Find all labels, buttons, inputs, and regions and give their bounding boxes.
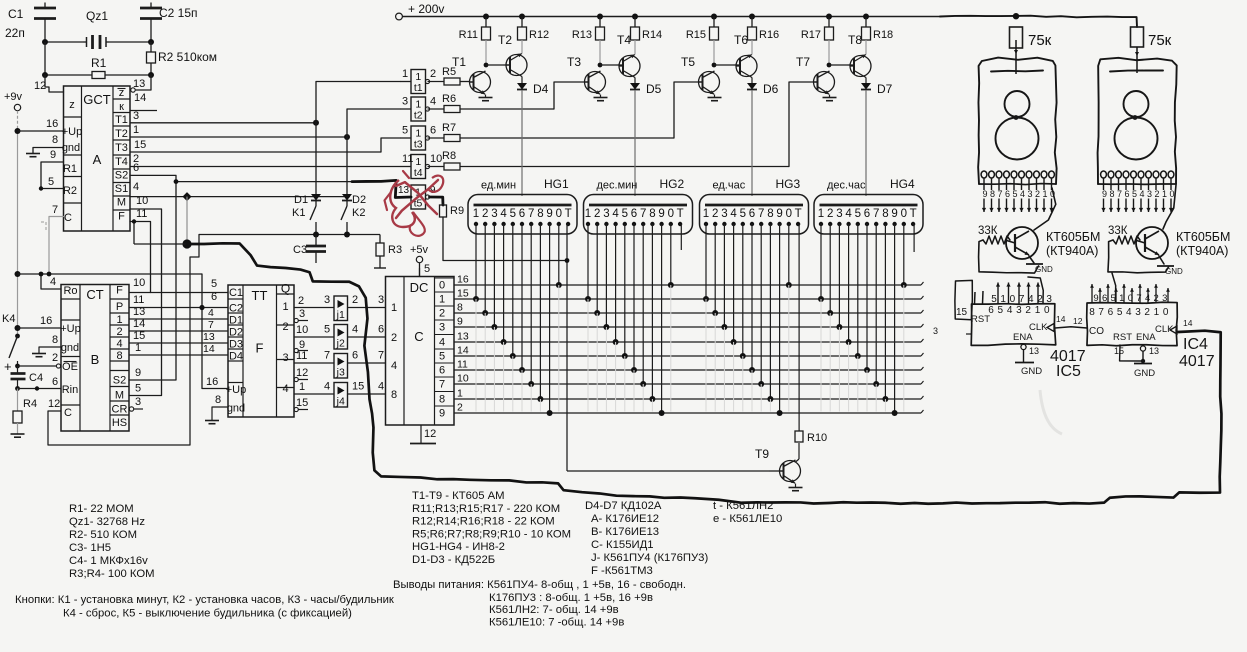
svg-text:0: 0: [1128, 293, 1133, 304]
svg-text:10: 10: [430, 153, 442, 165]
svg-text:HG2: HG2: [660, 177, 685, 191]
IC B pin numbers: [40, 276, 145, 408]
svg-text:14: 14: [134, 92, 146, 104]
svg-text:D2: D2: [352, 194, 366, 206]
ground T3: [594, 95, 608, 101]
svg-text:2: 2: [52, 352, 58, 364]
wire R7 to T5 base: [674, 82, 698, 138]
svg-text:0: 0: [556, 208, 562, 220]
svg-text:13: 13: [203, 331, 215, 343]
ground T5: [708, 95, 722, 101]
svg-text:9: 9: [776, 208, 782, 220]
node +9v line1: [15, 271, 21, 277]
svg-text:R3: R3: [388, 244, 402, 256]
svg-text:0: 0: [1044, 305, 1050, 316]
svg-text:A- К176ИЕ12: A- К176ИЕ12: [591, 513, 659, 525]
svg-text:4: 4: [612, 208, 619, 220]
svg-text:1: 1: [457, 388, 463, 400]
svg-text:3: 3: [836, 208, 842, 220]
wire A pin6 S2: [129, 175, 176, 380]
svg-text:15: 15: [133, 330, 145, 342]
IC F inverted output stubs: [294, 318, 308, 411]
diode D6: [747, 82, 779, 96]
svg-text:4: 4: [50, 276, 56, 288]
svg-text:8: 8: [649, 208, 655, 220]
notes middle column: [412, 490, 571, 566]
svg-text:t1: t1: [414, 82, 423, 94]
svg-text:DC: DC: [410, 280, 429, 295]
notes buttons: [15, 594, 394, 620]
svg-text:6: 6: [378, 324, 384, 336]
svg-text:1: 1: [818, 208, 824, 220]
svg-text:GCT: GCT: [83, 92, 111, 107]
svg-text:F -К561ТМ3: F -К561ТМ3: [591, 565, 653, 577]
svg-text:4: 4: [116, 338, 122, 350]
svg-text:D6: D6: [763, 82, 779, 96]
label ед.мин HG1: [481, 177, 569, 192]
svg-text:R14: R14: [642, 29, 662, 41]
svg-text:5: 5: [1012, 189, 1017, 199]
svg-text:S2: S2: [113, 375, 126, 387]
svg-text:7: 7: [997, 189, 1002, 199]
svg-text:7: 7: [1098, 307, 1104, 318]
resistor R15: [686, 17, 719, 42]
svg-text:1: 1: [1000, 294, 1006, 305]
svg-text:2: 2: [827, 208, 833, 220]
svg-text:2: 2: [282, 321, 288, 333]
svg-text:1: 1: [1154, 307, 1160, 318]
svg-text:9: 9: [439, 408, 445, 420]
wire B Rin pin6: [18, 386, 62, 390]
svg-text:T7: T7: [796, 55, 810, 69]
svg-text:6: 6: [52, 376, 58, 388]
svg-text:GND: GND: [1021, 366, 1042, 377]
svg-text:10: 10: [296, 324, 308, 336]
inverter t5: [398, 185, 436, 210]
svg-text:HG1-HG4 - ИН8-2: HG1-HG4 - ИН8-2: [412, 541, 505, 553]
svg-text:к: к: [119, 101, 124, 113]
resistor R7: [442, 122, 674, 142]
svg-text:5: 5: [324, 324, 330, 336]
svg-text:M: M: [115, 390, 124, 402]
node OE tap: [15, 364, 20, 369]
svg-text:5: 5: [998, 305, 1004, 316]
svg-text:R18: R18: [873, 29, 893, 41]
switch K2: [341, 206, 365, 235]
svg-text:9: 9: [135, 367, 141, 379]
svg-text:7: 7: [52, 204, 58, 216]
svg-text:8: 8: [1109, 189, 1114, 199]
svg-text:10: 10: [457, 373, 469, 385]
buffer j2: [294, 324, 385, 350]
transistor T8: [848, 33, 872, 78]
transistor Q left KT605BM: [1005, 188, 1100, 259]
svg-text:5: 5: [402, 125, 408, 137]
notes logic column: [713, 500, 782, 525]
wire A pin7: [49, 217, 64, 275]
inverter t2: [400, 96, 444, 122]
svg-text:Т1-Т9 - КТ605 АМ: Т1-Т9 - КТ605 АМ: [412, 490, 505, 502]
svg-text:j2: j2: [336, 338, 345, 350]
switch K4: [2, 313, 20, 366]
wire R18-D7 column: [865, 40, 867, 83]
transistor T5: [681, 55, 720, 94]
wire T3 net pin15: [130, 151, 381, 153]
+9v terminal: [4, 91, 23, 127]
op-amp U IC4 4017: [1087, 273, 1193, 379]
svg-text:C4: C4: [29, 372, 43, 384]
svg-text:IC5: IC5: [1056, 363, 1081, 380]
resistor 33K left: [978, 225, 1039, 273]
node +9v A: [15, 128, 21, 134]
resistor R4: [13, 389, 37, 435]
wire HG3 T to R10: [798, 224, 800, 431]
svg-text:3: 3: [282, 352, 288, 364]
svg-text:5: 5: [439, 351, 445, 363]
svg-text:K2: K2: [352, 207, 365, 219]
svg-text:(КТ940А): (КТ940А): [1176, 244, 1228, 258]
svg-text:4: 4: [1020, 189, 1025, 199]
svg-text:6: 6: [133, 162, 139, 174]
wire T4 net pin2: [130, 166, 400, 168]
wire R6 to T3 base: [554, 82, 584, 109]
svg-text:9: 9: [546, 208, 552, 220]
svg-text:22п: 22п: [5, 26, 25, 40]
svg-text:16: 16: [40, 315, 52, 327]
svg-text:C2 15п: C2 15п: [159, 6, 198, 20]
svg-text:+Up: +Up: [60, 323, 81, 335]
svg-text:R1- 22 МОМ: R1- 22 МОМ: [69, 503, 134, 515]
svg-text:К561ЛН2: 7- общ. 14 +9в: К561ЛН2: 7- общ. 14 +9в: [489, 604, 619, 616]
svg-text:3: 3: [324, 294, 330, 306]
resistor R3: [374, 235, 402, 269]
svg-text:R4: R4: [23, 398, 37, 410]
svg-text:7: 7: [528, 208, 534, 220]
svg-text:Выводы питания: К561ПУ4- 8-общ: Выводы питания: К561ПУ4- 8-общ , 1 +5в, …: [393, 579, 686, 591]
svg-text:К4 - сброс, К5 - выключение бу: К4 - сброс, К5 - выключение будильника (…: [63, 608, 352, 620]
wire A gnd pin8: [33, 148, 64, 154]
resistor R13: [572, 17, 605, 42]
svg-text:T1: T1: [452, 55, 466, 69]
svg-text:2: 2: [430, 68, 436, 80]
svg-text:C3: C3: [293, 244, 307, 256]
svg-text:9: 9: [982, 189, 987, 199]
svg-text:2: 2: [439, 308, 445, 320]
IC A pin numbers: [34, 78, 148, 220]
node Rin tap: [15, 386, 20, 391]
notes right column: [585, 500, 708, 577]
svg-text:4: 4: [439, 337, 445, 349]
node C3: [313, 232, 319, 238]
svg-text:1: 1: [585, 208, 591, 220]
wire HG2 T stub: [680, 224, 682, 250]
svg-text:1: 1: [116, 314, 122, 326]
svg-text:14: 14: [203, 343, 215, 355]
svg-text:5: 5: [48, 176, 54, 188]
IC F pin numbers right: [296, 295, 308, 409]
svg-text:14: 14: [133, 318, 145, 330]
wire B CR pin3: [129, 407, 143, 411]
svg-text:6: 6: [352, 350, 358, 362]
svg-text:GND: GND: [1134, 368, 1155, 379]
svg-text:C1: C1: [229, 287, 243, 299]
svg-text:R16: R16: [759, 29, 779, 41]
svg-text:16: 16: [457, 274, 469, 286]
svg-text:D4: D4: [533, 82, 549, 96]
svg-text:2: 2: [116, 326, 122, 338]
svg-text:T8: T8: [848, 33, 862, 47]
ground F: [205, 421, 219, 424]
svg-text:8: 8: [215, 394, 221, 406]
node rail 75k: [1013, 13, 1019, 19]
svg-text:e - К561ЛЕ10: e - К561ЛЕ10: [713, 513, 782, 525]
svg-text:15: 15: [956, 307, 968, 318]
svg-text:15: 15: [457, 288, 469, 300]
svg-text:6: 6: [1005, 189, 1010, 199]
svg-text:8: 8: [457, 302, 463, 314]
resistor 75k right: [1131, 27, 1172, 49]
faint mark: [1040, 390, 1062, 434]
node R1 left: [42, 72, 48, 78]
wire R10 to T9 collector: [796, 443, 800, 462]
svg-text:3: 3: [721, 208, 727, 220]
wire pin13 to R2 node: [131, 75, 151, 92]
svg-text:3: 3: [1135, 307, 1141, 318]
node T1-D1: [313, 120, 319, 126]
svg-text:8: 8: [439, 394, 445, 406]
resistor R8: [442, 150, 789, 170]
svg-text:gnd: gnd: [62, 142, 80, 154]
svg-text:0: 0: [1010, 294, 1016, 305]
wire Qz1 right: [109, 41, 151, 43]
svg-text:7: 7: [378, 350, 384, 362]
svg-text:P: P: [116, 301, 123, 313]
svg-text:C: C: [414, 329, 423, 344]
op-amp U A counter K176IE12: [62, 86, 130, 231]
svg-text:4: 4: [1007, 305, 1013, 316]
svg-text:12: 12: [34, 80, 46, 92]
svg-text:8: 8: [537, 208, 543, 220]
svg-text:4: 4: [1028, 294, 1034, 305]
wire R15 to T5 collector: [712, 40, 734, 67]
svg-text:6: 6: [1102, 293, 1107, 304]
svg-text:2: 2: [352, 294, 358, 306]
svg-text:C1: C1: [8, 7, 24, 21]
svg-text:R8: R8: [442, 150, 456, 162]
diode D2: [342, 137, 366, 206]
wire B Ro pin4: [41, 274, 61, 289]
svg-text:С3- 1Н5: С3- 1Н5: [69, 542, 111, 554]
svg-text:5: 5: [855, 208, 861, 220]
wire 75k right to tube: [1135, 47, 1139, 74]
svg-text:C: C: [64, 407, 72, 419]
svg-text:z: z: [69, 99, 75, 111]
svg-text:4: 4: [430, 96, 436, 108]
svg-text:7: 7: [640, 208, 646, 220]
wire T2 up to t2: [347, 109, 400, 137]
svg-text:1: 1: [703, 208, 709, 220]
svg-text:D5: D5: [646, 82, 662, 96]
svg-text:5: 5: [740, 208, 746, 220]
svg-text:C- К155ИД1: C- К155ИД1: [591, 539, 654, 551]
wire HG4 T stub: [913, 224, 915, 252]
svg-text:R12: R12: [529, 29, 549, 41]
svg-text:ед.час: ед.час: [713, 180, 746, 192]
wire matrix rows DC outputs: [454, 282, 924, 413]
svg-text:1: 1: [299, 381, 305, 393]
svg-text:3: 3: [603, 208, 609, 220]
wire D6 to HG3 anode: [751, 90, 753, 196]
svg-text:5: 5: [424, 263, 430, 275]
wire R11 to T1 collector: [484, 40, 504, 67]
buffer j4: [294, 381, 385, 408]
svg-text:4: 4: [133, 181, 139, 193]
svg-text:Qz1- 32768 Hz: Qz1- 32768 Hz: [69, 516, 145, 528]
svg-text:HS: HS: [112, 417, 127, 429]
svg-text:R7: R7: [442, 122, 456, 134]
svg-text:0: 0: [786, 208, 792, 220]
ground B: [32, 354, 46, 357]
node D2 bus: [344, 232, 350, 238]
svg-text:3: 3: [933, 326, 938, 336]
svg-text:1: 1: [402, 68, 408, 80]
resistor R11: [459, 17, 491, 42]
wire Q left emitter gnd: [1026, 256, 1053, 274]
svg-text:дес.мин: дес.мин: [597, 180, 638, 192]
svg-text:13: 13: [457, 331, 469, 343]
svg-text:3: 3: [491, 208, 497, 220]
svg-text:КТ605БМ: КТ605БМ: [1046, 230, 1100, 244]
resistor R18: [862, 17, 894, 42]
svg-text:12: 12: [296, 367, 308, 379]
svg-text:3: 3: [1016, 305, 1022, 316]
wire display cathode drops with junctions: [473, 224, 907, 416]
svg-text:3: 3: [1046, 294, 1052, 305]
ghost erased verticals: [476, 285, 904, 412]
DC output pin numbers: [457, 274, 469, 414]
wire T9 emitter: [795, 484, 797, 488]
svg-text:11: 11: [402, 153, 413, 165]
svg-text:D4-D7 КД102А: D4-D7 КД102А: [585, 500, 662, 512]
svg-text:Q: Q: [281, 282, 290, 296]
wire R9 down: [443, 217, 567, 261]
svg-text:B- К176ИЕ13: B- К176ИЕ13: [591, 526, 659, 538]
svg-text:75к: 75к: [1148, 32, 1172, 49]
resistor R12: [518, 17, 550, 42]
op-amp U B counter K176IE13: [60, 285, 129, 432]
wire Qz1 left: [45, 41, 83, 43]
svg-text:4: 4: [324, 381, 330, 393]
svg-text:R6: R6: [442, 93, 456, 105]
svg-text:13: 13: [1149, 346, 1159, 356]
svg-text:4: 4: [378, 381, 384, 393]
svg-text:+Up: +Up: [226, 384, 247, 396]
node B +Up: [15, 325, 21, 331]
wire D4 to HG1 anode: [521, 90, 523, 196]
wire A pin9: [41, 162, 64, 189]
svg-text:R17: R17: [801, 29, 821, 41]
svg-text:T2: T2: [498, 33, 512, 47]
svg-text:+ 200v: + 200v: [408, 2, 444, 16]
wire D5 to HG2 anode: [634, 90, 636, 196]
diode D4: [517, 82, 549, 96]
svg-text:T: T: [910, 208, 917, 220]
wire cross tie: [134, 243, 187, 245]
svg-text:С4- 1 МКФх16v: С4- 1 МКФх16v: [69, 555, 148, 567]
wire pin12 to R1 node: [45, 75, 64, 92]
svg-text:CO: CO: [1089, 326, 1104, 337]
svg-text:7: 7: [439, 379, 445, 391]
resistor R16: [748, 17, 780, 42]
svg-text:4: 4: [730, 208, 737, 220]
svg-text:11: 11: [457, 359, 468, 371]
wire S2 branch to t5 fix: [174, 179, 352, 184]
label ед.час HG3: [713, 177, 801, 192]
wire T1 net pin3: [130, 122, 316, 124]
svg-text:6: 6: [749, 208, 755, 220]
svg-text:T1: T1: [115, 114, 128, 126]
wire A pin11 F: [130, 222, 151, 293]
resistor R6: [442, 93, 554, 113]
svg-text:J- К561ПУ4 (К176ПУ3): J- К561ПУ4 (К176ПУ3): [591, 552, 708, 564]
svg-text:6: 6: [439, 365, 445, 377]
svg-text:A: A: [93, 152, 102, 167]
transistor T9: [755, 447, 801, 483]
svg-text:4: 4: [391, 360, 397, 372]
svg-text:8: 8: [116, 350, 122, 362]
op-amp U C decoder K155ID1: [386, 277, 455, 426]
wire B +Up pin16: [18, 327, 62, 329]
nixie display HG1 ИН8-2: [468, 195, 577, 235]
transistor T3: [567, 55, 606, 94]
svg-text:t4: t4: [414, 167, 423, 179]
svg-text:4: 4: [1139, 189, 1144, 199]
svg-text:2: 2: [1154, 189, 1159, 199]
transistor T1: [452, 55, 491, 94]
svg-text:1: 1: [1162, 189, 1167, 199]
svg-text:4017: 4017: [1179, 353, 1215, 370]
ground T1: [479, 95, 493, 101]
wire R8 to T7 base: [789, 82, 813, 167]
wire R17 to T7 collector: [827, 40, 848, 67]
svg-text:T6: T6: [734, 33, 748, 47]
svg-text:t2: t2: [414, 110, 423, 122]
wire S1 vertical to hand node: [186, 197, 188, 244]
svg-text:9: 9: [1102, 189, 1107, 199]
svg-text:+Up: +Up: [62, 126, 83, 138]
svg-text:T9: T9: [755, 447, 769, 461]
inverter t3: [400, 125, 444, 151]
svg-text:1: 1: [1042, 189, 1047, 199]
svg-text:TT: TT: [252, 288, 268, 303]
node T2-D2: [344, 134, 350, 140]
svg-text:T: T: [677, 208, 684, 220]
svg-text:S2: S2: [115, 170, 128, 182]
wire Q right emitter gnd: [1157, 256, 1183, 276]
wire D7 to HG4 anode: [865, 90, 867, 196]
svg-text:IC4: IC4: [1183, 336, 1208, 353]
svg-text:14: 14: [457, 345, 469, 357]
capacitor C1: [5, 3, 56, 43]
svg-text:j4: j4: [336, 396, 345, 408]
hand wire rail right: [940, 16, 1137, 27]
capacitor C3: [293, 235, 326, 264]
svg-text:9: 9: [457, 316, 463, 328]
transistor T6: [734, 33, 758, 78]
svg-text:3: 3: [1027, 189, 1032, 199]
svg-text:6: 6: [864, 208, 870, 220]
wire C1 to R1: [44, 42, 46, 75]
